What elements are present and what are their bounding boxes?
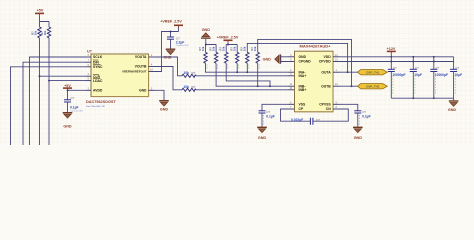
capacitor C? 0.1uF (VSS): [259, 110, 275, 126]
resistor R? pull-up LDAC: [40, 27, 51, 44]
svg-text:VDD: VDD: [324, 55, 332, 59]
svg-text:GND: GND: [354, 136, 363, 140]
resistor R4 row: [230, 46, 239, 63]
svg-text:GND: GND: [258, 136, 267, 140]
wire AVDD: [67, 89, 86, 91]
pin CPGND 5: [288, 59, 311, 64]
ground (CPVSS cap): [353, 127, 363, 140]
resistor R6 row (feedback B): [250, 46, 259, 63]
pin SYNC 5: [86, 64, 103, 69]
pin INB- 11: [288, 83, 305, 88]
svg-text:AVDD: AVDD: [93, 89, 103, 93]
wire gnd rail over R1 R2: [205, 44, 216, 53]
svg-text:10k: 10k: [34, 30, 38, 35]
svg-text:10µF: 10µF: [455, 73, 463, 77]
wire DIN: [23, 62, 86, 145]
pin GND 3: [139, 87, 155, 92]
svg-text:DAC7562SDGST: DAC7562SDGST: [86, 100, 116, 104]
svg-text:VSS: VSS: [299, 103, 307, 107]
pin CLR 9: [86, 73, 101, 79]
svg-text:SCLK: SCLK: [93, 55, 103, 59]
port SP_TH1: [358, 70, 388, 75]
wire VSS to cap: [262, 104, 288, 111]
svg-text:Dual 12-bit DAC, SPI: Dual 12-bit DAC, SPI: [86, 105, 105, 108]
svg-text:0.1µF: 0.1µF: [70, 105, 79, 109]
pin VSS 6: [288, 101, 306, 106]
svg-text:GND: GND: [448, 108, 457, 112]
wire to INB+: [196, 89, 288, 91]
pin CP 7: [288, 106, 304, 111]
svg-text:Capacitor 0603: Capacitor 0603: [176, 44, 189, 47]
svg-text:R?: R?: [192, 71, 196, 75]
pin CN 8: [326, 106, 340, 111]
svg-text:10k: 10k: [253, 46, 257, 51]
wire to INA+: [196, 75, 288, 77]
svg-text:GND: GND: [139, 89, 147, 93]
pin VOUTA 1: [135, 54, 155, 59]
wire INA- net: [206, 63, 289, 73]
ground (DAC): [159, 101, 169, 112]
capacitor C? 0.1uF (CPVSS): [354, 110, 370, 126]
pin OUTB 12: [321, 83, 339, 88]
svg-text:10k: 10k: [211, 46, 215, 51]
DAC U? DAC7562SDGST body: [86, 50, 149, 108]
svg-text:10k: 10k: [233, 46, 237, 51]
svg-text:GND: GND: [160, 108, 169, 112]
capacitor C? 10uF (4): [450, 57, 462, 98]
pin INA- 2: [288, 69, 305, 74]
power +12V: [387, 47, 396, 58]
svg-text:INB+: INB+: [299, 88, 307, 92]
svg-text:CPVSS: CPVSS: [319, 103, 331, 107]
resistor R1 row: [198, 46, 207, 63]
ground (VSS cap): [257, 127, 267, 140]
pin SCLK 6: [86, 54, 103, 59]
resistor R2 row: [209, 46, 218, 63]
svg-text:+VREF_2.5V: +VREF_2.5V: [160, 20, 182, 24]
wire gnd rail (right caps): [391, 98, 453, 100]
svg-text:10µF: 10µF: [414, 73, 422, 77]
pin GND 4: [288, 54, 307, 59]
svg-text:VOUTA: VOUTA: [135, 55, 147, 59]
svg-text:C?: C?: [455, 66, 459, 70]
svg-text:CPGND: CPGND: [299, 60, 312, 64]
svg-text:SYNC: SYNC: [93, 65, 103, 69]
svg-text:GND: GND: [202, 28, 211, 32]
svg-text:10k: 10k: [184, 71, 190, 75]
wire SCLK: [30, 57, 86, 145]
svg-text:C?: C?: [393, 66, 397, 70]
svg-text:10k: 10k: [43, 30, 47, 35]
capacitor C? 10000pF (1): [388, 57, 406, 98]
svg-text:10k: 10k: [201, 46, 205, 51]
svg-text:CPVDD: CPVDD: [319, 60, 331, 64]
pin CPVDD 13: [319, 59, 340, 64]
svg-text:C?: C?: [71, 96, 75, 100]
svg-text:OUTB: OUTB: [321, 84, 331, 88]
svg-text:10k: 10k: [243, 46, 247, 51]
svg-text:CP: CP: [299, 107, 304, 111]
wire CP flying cap: [281, 109, 311, 121]
op-amp U? MAX44267AUD+ body: [295, 43, 334, 112]
wire VOUTA to RC: [155, 57, 183, 76]
pin VOUTB 4: [135, 64, 155, 69]
svg-text:+12V: +12V: [387, 47, 396, 51]
resistor R? 10k (channel A series): [182, 71, 196, 77]
wire CPVDD rail: [340, 61, 454, 63]
power +VREF_2.5V (row): [217, 36, 239, 45]
pin INA+ 3: [288, 73, 306, 78]
pin CPVSS 9: [319, 101, 339, 106]
resistor R3 row: [219, 46, 228, 63]
capacitor C? 10000pF (3): [430, 56, 448, 99]
svg-text:0.1µF: 0.1µF: [266, 114, 275, 118]
svg-text:U?: U?: [87, 50, 93, 54]
ground (resistor row, pointing up): [201, 28, 211, 45]
svg-text:10k: 10k: [222, 46, 226, 51]
wire LDAC with junction: [48, 44, 85, 145]
wire CLR with junction: [39, 44, 86, 145]
svg-text:10k: 10k: [184, 85, 190, 89]
svg-text:+VREF_2.5V: +VREF_2.5V: [217, 36, 239, 40]
resistor R? 10k (channel B series): [182, 85, 196, 91]
svg-text:LDAC: LDAC: [93, 79, 103, 83]
svg-text:0.022µF: 0.022µF: [291, 118, 303, 122]
wire INB- net: [216, 63, 288, 87]
port SP_TH2: [358, 84, 388, 89]
pin VDD 14: [324, 54, 340, 59]
svg-text:C?: C?: [435, 66, 439, 70]
wire CPVSS to cap: [340, 104, 358, 111]
svg-text:VREFIN/VREFOUT: VREFIN/VREFOUT: [122, 70, 147, 74]
svg-text:DSP_TH1: DSP_TH1: [366, 70, 379, 74]
compile marks (resistor row leads): [207, 65, 259, 71]
svg-text:0.1µF: 0.1µF: [362, 114, 371, 118]
resistor R? pull-up CLR: [31, 27, 42, 44]
svg-text:C?: C?: [415, 66, 419, 70]
wire OUTB to port: [340, 85, 358, 87]
wire VOUTB to RC: [155, 67, 183, 90]
power +5V (top left): [35, 9, 44, 22]
svg-text:CN: CN: [326, 107, 331, 111]
pin AVDD 2: [86, 87, 103, 92]
svg-text:Capacitor 0402: Capacitor 0402: [70, 109, 83, 112]
ground (VREF cap): [163, 49, 175, 59]
svg-text:GND: GND: [299, 55, 307, 59]
power +5V (AVDD): [63, 84, 72, 90]
svg-text:2.2µF: 2.2µF: [176, 41, 185, 45]
wire +5V split: [40, 22, 50, 28]
pin DIN 7: [86, 59, 100, 64]
svg-text:DIN: DIN: [93, 60, 99, 64]
wire feedback B over top: [258, 39, 352, 86]
svg-text:+5V: +5V: [37, 9, 44, 13]
wire VREF to pin: [155, 31, 179, 72]
svg-text:GND: GND: [263, 58, 272, 62]
capacitor C? 0.1uF (AVDD decoupling): [64, 90, 83, 112]
pin INB+ 10: [288, 87, 306, 92]
resistor R5 row (feedback A): [240, 46, 249, 63]
wire DAC GND down: [155, 90, 165, 100]
svg-text:10000pF: 10000pF: [435, 73, 448, 77]
wire vref rail over R3 R4: [226, 44, 237, 53]
capacitor C? 0.022uF (flying): [291, 118, 320, 125]
svg-text:MAX44267AUD+: MAX44267AUD+: [300, 43, 332, 48]
wire SYNC: [11, 67, 86, 145]
svg-text:DSP_TH2: DSP_TH2: [366, 84, 379, 88]
svg-text:OUTA: OUTA: [321, 70, 331, 74]
ground (MAX44267 left, pointing left): [263, 54, 288, 64]
ground (right caps): [448, 101, 459, 112]
wire VDD rail: [340, 56, 454, 58]
svg-text:GND: GND: [63, 125, 72, 129]
wire CN flying cap: [313, 109, 348, 121]
wire OUTA to port: [340, 71, 358, 73]
ground (AVDD cap): [63, 113, 73, 129]
capacitor C? 10uF (2): [410, 56, 422, 99]
svg-text:10000pF: 10000pF: [392, 73, 405, 77]
pin LDAC 8: [86, 78, 103, 83]
power +VREF_2.5V (left): [160, 20, 183, 32]
wire feedback A over top: [247, 43, 347, 72]
svg-text:VOUTB: VOUTB: [135, 65, 147, 69]
capacitor C? 2.2uF (VREF): [167, 32, 189, 49]
svg-text:INA+: INA+: [299, 74, 307, 78]
pin OUTA 1: [321, 69, 339, 74]
svg-text:R?: R?: [192, 85, 196, 89]
pin VREFIN/VREFOUT 10: [122, 69, 154, 74]
